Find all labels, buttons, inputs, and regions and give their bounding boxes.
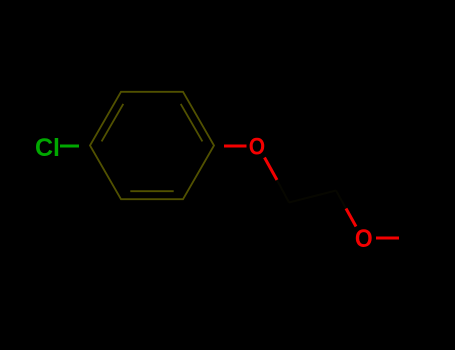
bond O1-C7 carbon half (dark) bbox=[277, 180, 289, 203]
bond C4-O1 (red half) bbox=[224, 145, 247, 148]
svg-text:O: O bbox=[355, 225, 373, 253]
bond C7-C8 (dark) bbox=[289, 191, 336, 203]
benzene ring C1-C6 bbox=[90, 92, 214, 199]
bond C8-O2 carbon half (dark) bbox=[336, 191, 346, 209]
bond C8-O2 red half bbox=[346, 209, 356, 227]
double bond inner line left bbox=[102, 104, 124, 141]
svg-text:O: O bbox=[249, 134, 265, 161]
bond Cl-C1 (green half) bbox=[60, 145, 79, 148]
bond O2-C9 methyl (red half) bbox=[376, 237, 399, 240]
double bond inner line bottom bbox=[130, 190, 173, 192]
bond O1-C7 red half bbox=[265, 158, 278, 181]
double bond inner line right bbox=[181, 104, 203, 141]
svg-text:Cl: Cl bbox=[35, 134, 60, 162]
